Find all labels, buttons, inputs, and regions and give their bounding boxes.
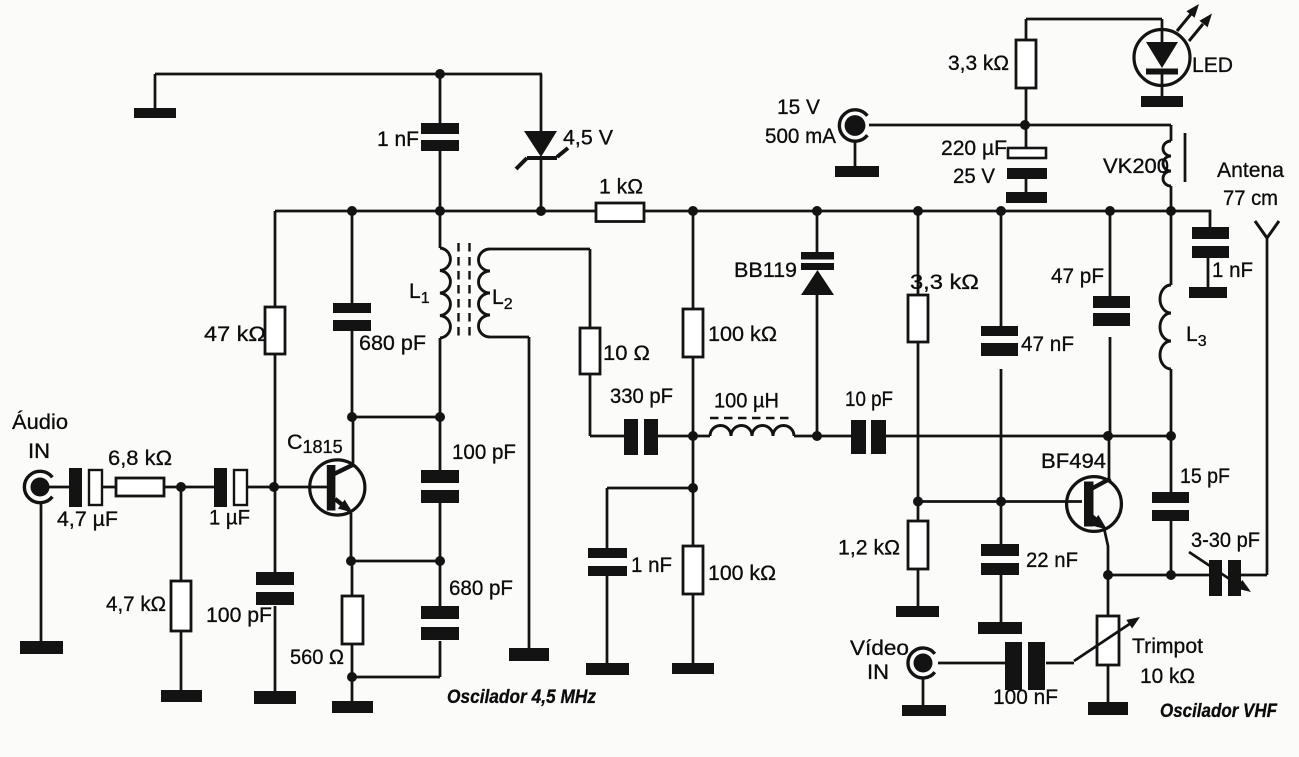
- svg-text:47 nF: 47 nF: [1021, 333, 1074, 356]
- svg-text:15 V: 15 V: [777, 96, 820, 119]
- svg-text:VK200: VK200: [1103, 155, 1169, 178]
- svg-text:10 kΩ: 10 kΩ: [1140, 665, 1195, 688]
- svg-text:1 nF: 1 nF: [631, 554, 672, 577]
- svg-text:1,2 kΩ: 1,2 kΩ: [838, 537, 900, 560]
- svg-text:100 pF: 100 pF: [452, 441, 516, 464]
- svg-text:680 pF: 680 pF: [359, 332, 426, 355]
- svg-text:BF494: BF494: [1041, 450, 1106, 473]
- svg-text:6,8 kΩ: 6,8 kΩ: [108, 447, 172, 470]
- svg-text:3-30 pF: 3-30 pF: [1191, 529, 1260, 552]
- svg-text:10 pF: 10 pF: [845, 388, 893, 411]
- svg-text:3,3 kΩ: 3,3 kΩ: [948, 52, 1009, 75]
- svg-text:Áudio: Áudio: [12, 411, 68, 434]
- svg-text:77 cm: 77 cm: [1223, 187, 1278, 210]
- svg-text:Oscilador 4,5 MHz: Oscilador 4,5 MHz: [447, 687, 596, 708]
- svg-text:Vídeo: Vídeo: [850, 637, 909, 660]
- svg-text:500 mA: 500 mA: [765, 125, 836, 148]
- svg-text:1 nF: 1 nF: [377, 128, 419, 151]
- svg-text:22 nF: 22 nF: [1026, 549, 1078, 572]
- svg-text:100 kΩ: 100 kΩ: [708, 323, 777, 346]
- svg-text:Trimpot: Trimpot: [1132, 635, 1203, 658]
- svg-text:4,5 V: 4,5 V: [563, 127, 613, 150]
- svg-text:15 pF: 15 pF: [1180, 465, 1230, 488]
- svg-text:Antena: Antena: [1217, 159, 1284, 182]
- svg-text:IN: IN: [28, 440, 50, 463]
- svg-text:220 µF: 220 µF: [941, 137, 1007, 160]
- svg-text:4,7 kΩ: 4,7 kΩ: [106, 593, 166, 616]
- svg-text:680 pF: 680 pF: [449, 577, 513, 600]
- svg-text:BB119: BB119: [734, 259, 797, 282]
- svg-text:1 µF: 1 µF: [209, 507, 250, 530]
- svg-text:3,3 kΩ: 3,3 kΩ: [910, 271, 979, 294]
- svg-text:25 V: 25 V: [953, 165, 995, 188]
- svg-text:47 kΩ: 47 kΩ: [204, 323, 266, 346]
- svg-text:1 kΩ: 1 kΩ: [599, 176, 643, 199]
- svg-text:LED: LED: [1192, 54, 1233, 77]
- svg-text:IN: IN: [867, 661, 889, 684]
- svg-text:4,7 µF: 4,7 µF: [57, 508, 118, 531]
- svg-text:100 µH: 100 µH: [714, 390, 779, 413]
- svg-text:100 kΩ: 100 kΩ: [708, 562, 776, 585]
- svg-text:Oscilador VHF: Oscilador VHF: [1160, 701, 1278, 722]
- svg-text:330 pF: 330 pF: [610, 385, 673, 408]
- svg-text:47 pF: 47 pF: [1051, 265, 1104, 288]
- svg-text:560 Ω: 560 Ω: [290, 646, 344, 669]
- svg-text:10 Ω: 10 Ω: [603, 342, 650, 365]
- svg-text:100 pF: 100 pF: [206, 604, 272, 627]
- svg-text:1 nF: 1 nF: [1212, 259, 1253, 282]
- svg-text:100 nF: 100 nF: [993, 686, 1058, 709]
